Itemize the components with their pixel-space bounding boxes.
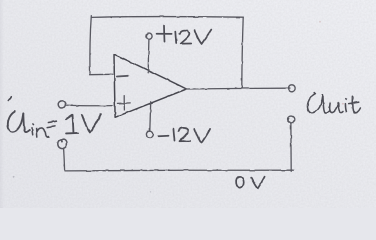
wire feedback right vertical (to output): [242, 17, 243, 88]
label -12V: [158, 135, 168, 138]
terminal input return (0V side): [58, 139, 67, 149]
label Uin = 1V: [8, 112, 23, 132]
terminal +12V: [146, 33, 152, 39]
terminal input Uin: [58, 101, 65, 108]
op-amp inverting input marker -: [117, 75, 128, 78]
wire input to non-inverting input: [66, 104, 113, 107]
stray pen mark near Uin: [8, 97, 11, 101]
terminal output return: [288, 116, 295, 123]
label 0V: [236, 177, 244, 188]
wire input return down: [64, 148, 65, 170]
paper speck: [13, 176, 15, 178]
wire output: [187, 87, 289, 90]
op-amp non-inverting input marker +: [118, 96, 131, 110]
label +12V: [157, 26, 172, 42]
terminal output Uuit: [289, 85, 296, 92]
wire bottom 0V rail: [65, 169, 293, 172]
wire +12V to op-amp: [147, 40, 150, 73]
label Uuit: [307, 93, 322, 114]
op-amp U1 triangle: [114, 54, 187, 117]
wire feedback elbow to inverting input: [90, 73, 113, 75]
wire op-amp to -12V: [149, 102, 152, 131]
terminal -12V: [146, 131, 152, 137]
wire output return down: [290, 123, 292, 171]
wire feedback top horizontal: [91, 16, 243, 19]
wire feedback left vertical: [90, 16, 91, 74]
